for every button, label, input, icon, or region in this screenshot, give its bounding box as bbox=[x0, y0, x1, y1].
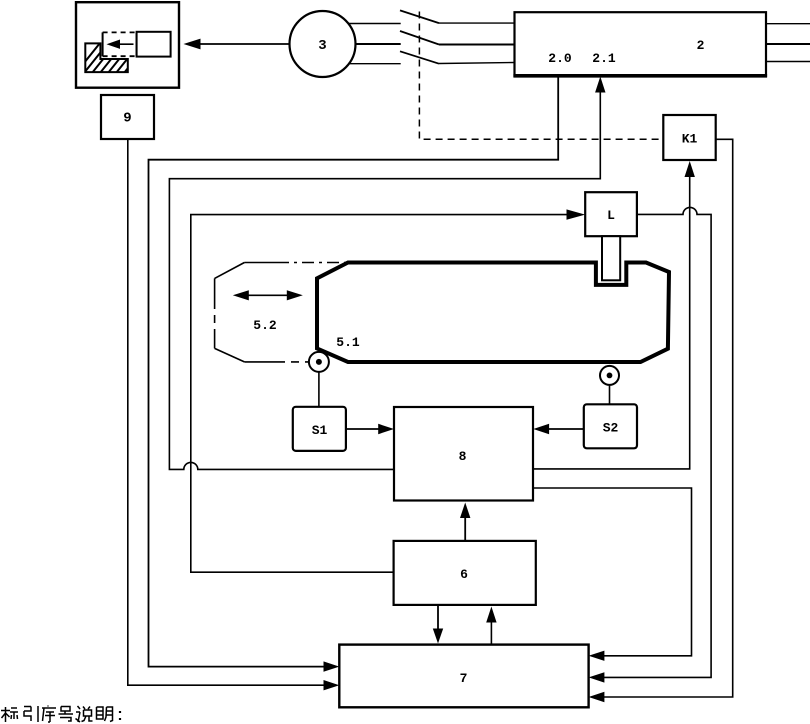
solenoid box L bbox=[585, 192, 637, 236]
号 bbox=[59, 707, 74, 722]
motor circle 3 bbox=[290, 11, 356, 77]
svg-text:K1: K1 bbox=[682, 132, 698, 147]
box 9 bbox=[101, 95, 154, 139]
wire 2.0 output to box 7 upper-left input bbox=[149, 76, 559, 672]
wire box 8 to 2.1 input with hop bbox=[169, 77, 605, 470]
svg-text:7: 7 bbox=[460, 671, 468, 686]
movable extension 5.2 (dashed outline) bbox=[215, 263, 346, 362]
svg-text:5.1: 5.1 bbox=[336, 335, 360, 350]
svg-text:2: 2 bbox=[697, 38, 705, 53]
solenoid plunger bbox=[602, 236, 620, 280]
sensor box S2 bbox=[584, 404, 637, 448]
relay box K1 bbox=[663, 115, 715, 160]
caption: hand-drawn CJK strokes for 标引序号说明： bbox=[1, 706, 120, 723]
output lines right of box 2 bbox=[766, 24, 810, 62]
svg-text:2.0: 2.0 bbox=[548, 51, 572, 66]
sensor box S1 bbox=[293, 407, 346, 451]
明 bbox=[97, 707, 113, 722]
feed arrow inside slide block bbox=[107, 40, 134, 49]
svg-text:8: 8 bbox=[459, 449, 467, 464]
three phase lines from motor to switch bbox=[349, 24, 401, 64]
tool assembly enclosure box bbox=[76, 2, 179, 88]
arrow box 6 to box 8 bbox=[460, 503, 470, 541]
说 bbox=[76, 706, 93, 722]
wire box 9 to box 7 lower-left input bbox=[128, 139, 339, 690]
hatched workpiece block bbox=[72, 38, 152, 78]
left roller bbox=[309, 352, 329, 372]
svg-text:2.1: 2.1 bbox=[592, 51, 616, 66]
序 bbox=[42, 706, 56, 723]
travel double arrow bbox=[233, 290, 303, 300]
three phase lines from switch to box 2 bbox=[439, 23, 515, 63]
dashed trip line from switch to K1 bbox=[419, 12, 662, 140]
svg-text:S2: S2 bbox=[603, 421, 619, 436]
wire left roller to S1 bbox=[318, 372, 320, 407]
标 bbox=[1, 707, 18, 722]
wire box 6 to solenoid L bbox=[191, 209, 585, 572]
box 6 bbox=[394, 541, 536, 605]
slide block with dashed edges bbox=[103, 32, 137, 56]
wire L to box 7 right input (hop over K1 wire) bbox=[589, 207, 712, 682]
wire K1 to box 7 right input bbox=[589, 139, 733, 702]
machine table 5.1 outline bbox=[317, 263, 669, 363]
arrow box 6 to box 7 bbox=[433, 605, 443, 644]
引 bbox=[24, 706, 38, 722]
： bbox=[119, 711, 121, 720]
svg-text:5.2: 5.2 bbox=[253, 318, 277, 333]
tool block bbox=[137, 32, 171, 57]
wire right roller to S2 bbox=[609, 385, 611, 404]
svg-text:S1: S1 bbox=[312, 423, 328, 438]
svg-text:9: 9 bbox=[123, 111, 131, 127]
arrow S2 to box 8 bbox=[533, 424, 584, 434]
box 2 bbox=[513, 12, 767, 76]
arrow motor 3 to tool assembly bbox=[184, 39, 290, 50]
arrow S1 to box 8 bbox=[346, 424, 394, 434]
arrow box 7 to box 6 bbox=[486, 607, 496, 645]
switch blades bbox=[400, 10, 439, 63]
controller box 8 bbox=[394, 407, 533, 501]
svg-text:3: 3 bbox=[318, 38, 326, 54]
wire box 8 to K1 (arrow up into K1) bbox=[533, 161, 695, 469]
svg-text:L: L bbox=[607, 208, 615, 223]
right roller bbox=[600, 366, 619, 385]
box 7 bbox=[339, 645, 588, 708]
svg-text:6: 6 bbox=[460, 567, 468, 582]
wire box 8 to box 7 right input bbox=[533, 488, 692, 661]
